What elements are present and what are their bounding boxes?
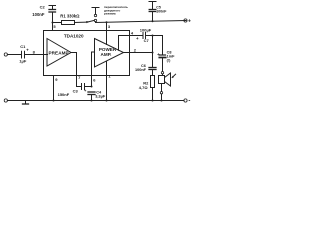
IC box TDA1020: [44, 31, 130, 76]
wire output node vertical: [152, 36, 154, 68]
wire pin 8: [25, 54, 48, 56]
capacitor C4: [88, 92, 95, 101]
svg-text:100µF: 100µF: [140, 28, 152, 33]
svg-text:1µF: 1µF: [19, 58, 27, 63]
terminal input: [4, 53, 7, 56]
node R2 junction: [152, 100, 154, 102]
wire C8 branch down: [162, 36, 164, 55]
capacitor C8: [159, 55, 165, 72]
node output junction: [152, 52, 154, 54]
svg-text:-: -: [188, 99, 190, 105]
node C4 junction: [91, 100, 93, 102]
svg-text:C7: C7: [144, 38, 150, 43]
wire preamp out to pin 7: [71, 53, 77, 87]
wire pin 5: [52, 23, 54, 31]
wire pin 1: [106, 61, 108, 101]
op-amp PREAMP triangle: [47, 39, 71, 67]
svg-text:150nF: 150nF: [58, 92, 70, 97]
capacitor C3: [77, 84, 92, 90]
svg-text:+: +: [157, 52, 160, 57]
capacitor C2: [49, 6, 56, 23]
terminal + supply: [184, 19, 187, 22]
node C3-pin6 junction: [91, 86, 93, 88]
switch S1: [86, 8, 99, 24]
node pin1 junction: [106, 100, 108, 102]
svg-text:+: +: [188, 19, 191, 25]
node connector top: [161, 72, 163, 74]
terminal - supply: [184, 99, 187, 102]
node C2/pin5 junction: [52, 22, 54, 24]
resistor R2: [151, 76, 155, 88]
wire pin 3: [106, 22, 108, 44]
capacitor C1: [22, 51, 25, 58]
svg-text:100nF: 100nF: [135, 68, 147, 72]
wire top rail right: [95, 21, 97, 24]
svg-text:C2: C2: [40, 5, 46, 10]
node pin3 junction: [106, 21, 108, 23]
wire top rail left: [53, 22, 62, 24]
labels: [19, 5, 191, 105]
svg-text:4,7Ω: 4,7Ω: [139, 85, 149, 90]
node speaker junction: [161, 100, 163, 102]
svg-text:R1 330kΩ: R1 330kΩ: [60, 13, 80, 18]
wire pin 6 / PA input link: [92, 52, 95, 87]
capacitor C6: [149, 68, 156, 76]
terminal ground left: [4, 99, 7, 102]
wire pin 2 output: [130, 52, 153, 54]
loudspeaker B1: [159, 73, 176, 86]
wire input: [7, 54, 21, 56]
op-amp POWER AMP triangle: [95, 39, 124, 68]
svg-text:TDA1020: TDA1020: [64, 34, 84, 39]
wire C7 to C8 branch: [146, 35, 163, 37]
wire pin 4 to C7: [130, 35, 143, 37]
svg-text:+: +: [136, 36, 139, 41]
svg-text:AMP.: AMP.: [101, 52, 112, 57]
wire pin 9: [53, 76, 55, 101]
wire PA output pin 2: [124, 52, 130, 54]
node connector bottom: [161, 84, 163, 92]
wire bottom rail: [7, 100, 184, 102]
svg-text:C3: C3: [73, 89, 79, 94]
node bootstrap junction: [152, 35, 154, 37]
svg-text:100nF: 100nF: [156, 10, 167, 14]
node pin9 junction: [53, 100, 55, 102]
capacitor C5: [149, 2, 156, 22]
ground: [23, 101, 29, 105]
wire pin 4 internal: [119, 36, 130, 51]
resistor R1: [62, 21, 75, 25]
svg-text:3,3µF: 3,3µF: [95, 94, 106, 99]
svg-text:режима: режима: [104, 12, 116, 16]
capacitor C7: [143, 33, 146, 39]
svg-text:PREAMP: PREAMP: [48, 50, 68, 55]
svg-text:100nF: 100nF: [32, 12, 45, 17]
node C5 junction: [152, 20, 154, 22]
